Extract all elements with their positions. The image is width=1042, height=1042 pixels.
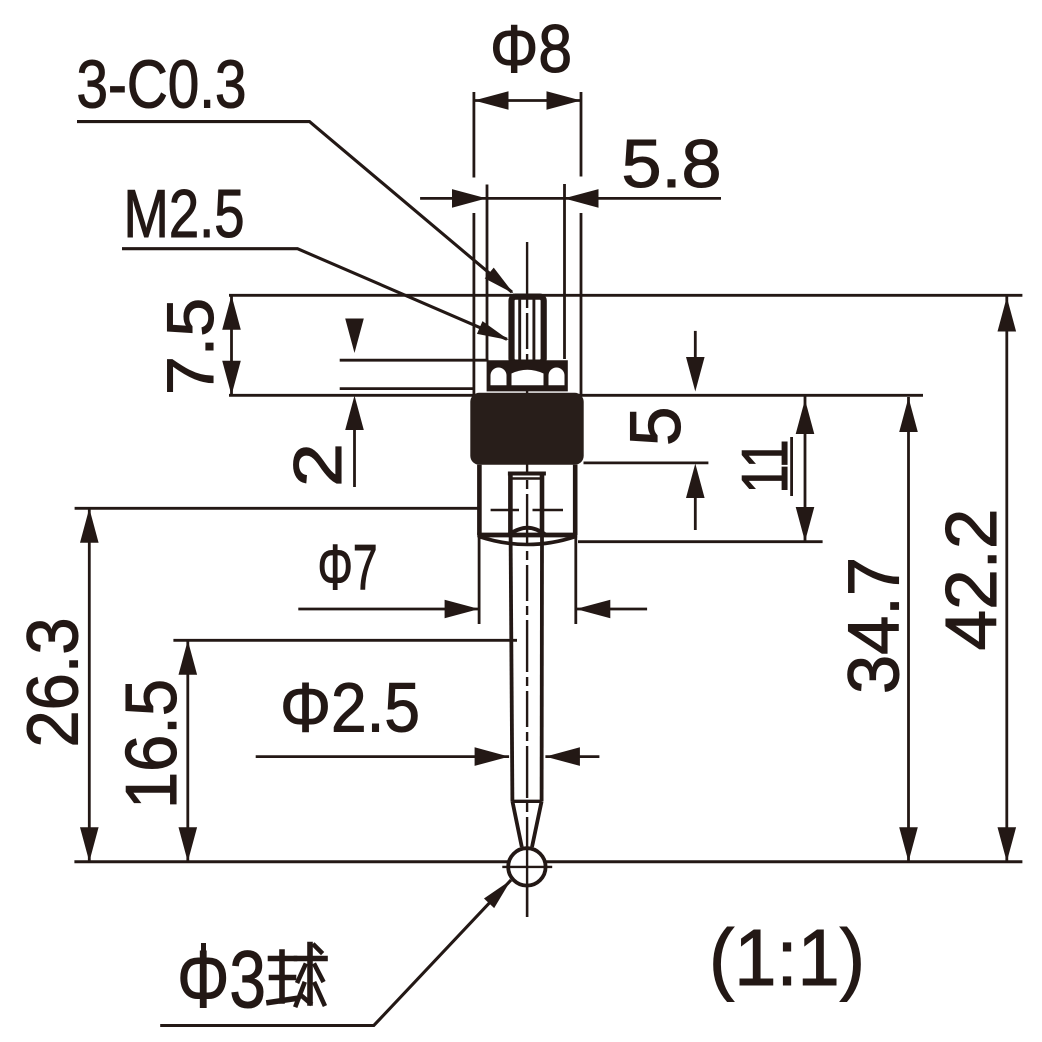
svg-text:Φ7: Φ7 — [318, 532, 378, 604]
svg-text:11: 11 — [728, 440, 801, 494]
svg-text:Φ2.5: Φ2.5 — [280, 669, 420, 747]
svg-text:5.8: 5.8 — [622, 126, 722, 202]
svg-text:(1:1): (1:1) — [709, 913, 865, 1002]
svg-text:3-C0.3: 3-C0.3 — [77, 48, 247, 123]
svg-text:Φ3: Φ3 — [177, 935, 266, 1025]
svg-text:34.7: 34.7 — [835, 557, 915, 694]
svg-text:42.2: 42.2 — [932, 509, 1012, 651]
svg-text:M2.5: M2.5 — [124, 176, 245, 252]
svg-text:5: 5 — [617, 407, 696, 447]
svg-text:2: 2 — [280, 443, 356, 487]
svg-text:7.5: 7.5 — [153, 298, 227, 395]
svg-text:16.5: 16.5 — [112, 679, 192, 809]
svg-text:26.3: 26.3 — [14, 618, 94, 748]
svg-text:Φ8: Φ8 — [490, 11, 572, 87]
